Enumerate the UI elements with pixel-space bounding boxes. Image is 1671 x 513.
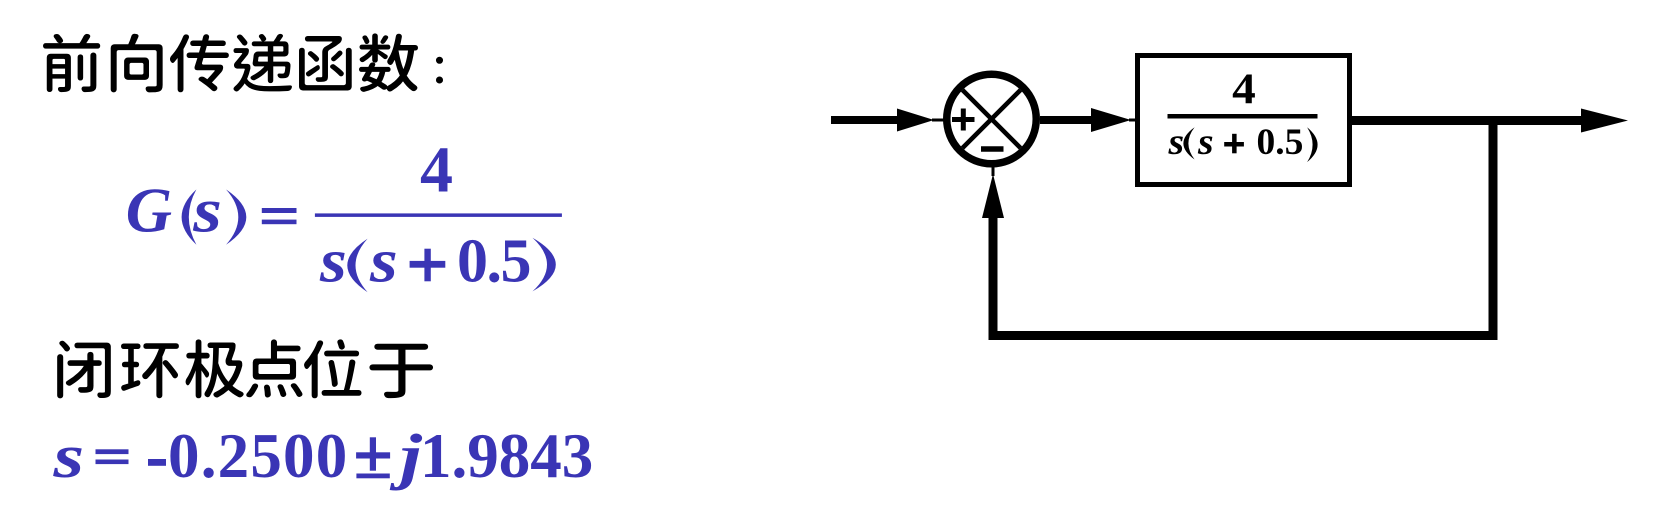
formula1 ( — [182, 189, 197, 244]
title text 前向传递函数 — [43, 34, 100, 92]
transfer function block — [1138, 56, 1350, 185]
svg-text:s: s — [1167, 123, 1184, 163]
svg-text:s: s — [192, 175, 222, 246]
formula2 equals sign — [96, 449, 129, 454]
minus sign on summing junction — [981, 146, 1004, 152]
svg-text:s: s — [1197, 123, 1214, 163]
formula1 denominator ( — [347, 239, 367, 293]
svg-text:s: s — [369, 227, 398, 296]
svg-text:s: s — [52, 421, 84, 491]
wire: feedback path — [993, 121, 1493, 336]
svg-text:s: s — [319, 227, 347, 295]
svg-text:0.5: 0.5 — [1257, 122, 1304, 163]
arrowhead: input into summing junction — [897, 109, 934, 132]
block denominator ( — [1183, 127, 1194, 159]
wire: input signal — [831, 116, 899, 124]
plus sign on summing junction — [952, 117, 975, 122]
arrowhead: into transfer-function block — [1091, 108, 1131, 132]
arrowhead: feedback into summing junction — [982, 174, 1004, 218]
formula1 ) — [226, 189, 246, 244]
formula1 equals sign — [262, 208, 297, 213]
formula2 plus-minus sign — [356, 452, 390, 458]
arrowhead: output — [1581, 109, 1628, 133]
summing junction X diagonals — [963, 90, 1021, 148]
block denominator plus sign — [1224, 142, 1244, 147]
block denominator ) — [1307, 127, 1318, 162]
formula1 denominator ) — [533, 238, 556, 292]
svg-text:j: j — [389, 421, 423, 491]
svg-text:4: 4 — [1232, 65, 1256, 113]
title colon — [436, 57, 443, 84]
svg-text:0.5: 0.5 — [457, 227, 530, 295]
svg-text:4: 4 — [420, 133, 453, 206]
summing junction circle — [947, 74, 1037, 164]
formula1 denominator plus sign — [410, 261, 446, 268]
wire: summing junction to block — [1040, 116, 1093, 124]
svg-text:1.9843: 1.9843 — [420, 421, 593, 491]
svg-text:G: G — [126, 175, 172, 246]
block fraction bar — [1168, 114, 1318, 119]
text 闭环极点位于 — [57, 341, 111, 399]
svg-text:0.2500: 0.2500 — [168, 421, 348, 491]
formula1 fraction bar — [315, 213, 562, 217]
formula2 minus sign — [148, 459, 166, 466]
wire: block output — [1352, 116, 1583, 125]
